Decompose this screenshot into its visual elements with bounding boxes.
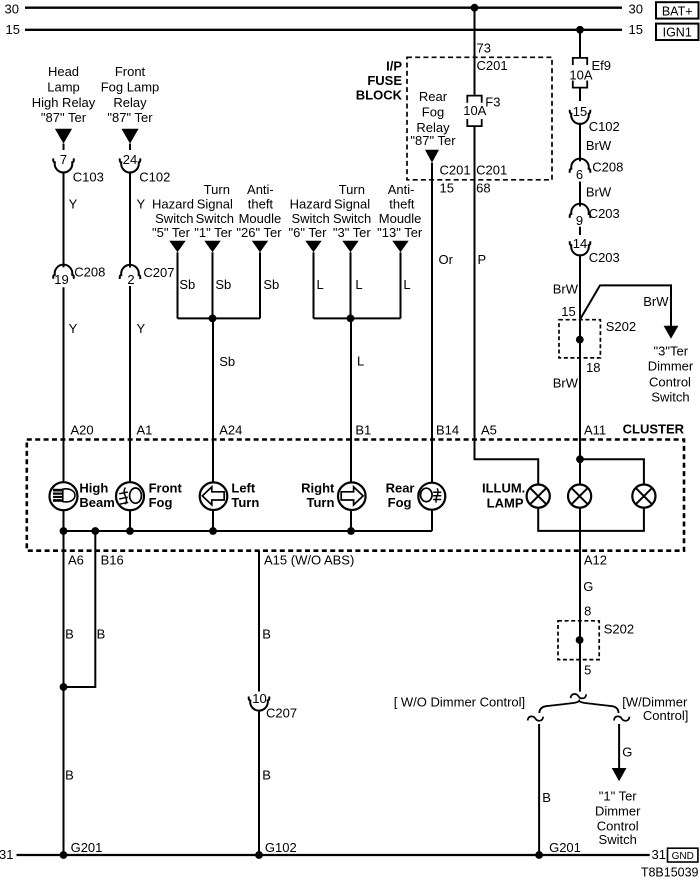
svg-text:"87" Ter: "87" Ter [41,110,87,125]
svg-text:C203: C203 [589,206,620,221]
wire Sb - anti-theft drop [259,252,261,318]
svg-text:Right: Right [301,481,335,496]
wire BrW - C102 to C208 [579,123,581,162]
svg-text:"1" Ter: "1" Ter [599,789,638,804]
svg-text:31: 31 [0,847,13,862]
indicator lamp - Rear Fog [418,483,445,510]
wire - rail 15 to fuse Ef9 [579,30,581,57]
svg-text:C201: C201 [477,58,508,73]
svg-text:"3" Ter: "3" Ter [333,225,372,240]
option split squiggle right branch [614,716,630,720]
svg-text:68: 68 [476,180,490,195]
svg-text:10A: 10A [569,68,592,83]
node - bus at front fog [126,527,134,535]
svg-text:"13" Ter: "13" Ter [377,225,423,240]
svg-text:C208: C208 [74,265,105,280]
splice S202 dashed box lower [558,621,599,660]
wire L - junction to cluster pin B1 [350,318,352,439]
wire P - fuse F3 to cluster pin A5 via C201 pin 68 [474,127,476,440]
terminal arrow - 1 Ter Dimmer Control Switch [612,768,627,781]
node - bus at left turn [209,527,217,535]
svg-text:15: 15 [6,22,20,37]
svg-text:C103: C103 [73,169,104,184]
svg-text:GND: GND [672,851,694,862]
svg-text:15: 15 [561,304,575,319]
svg-text:A20: A20 [71,423,94,438]
svg-text:Or: Or [439,252,454,267]
wire B - A15 to connector C207 [258,551,260,692]
node - junction of Ef9 feed on rail 15 [576,26,584,34]
svg-text:B16: B16 [101,553,124,568]
wire - branch to illumination lamp 3 [580,459,644,484]
svg-text:"6" Ter: "6" Ter [289,225,328,240]
svg-text:B14: B14 [436,423,459,438]
node - splice S202 lower junction [576,636,584,644]
svg-text:theft: theft [389,197,415,212]
svg-text:Turn: Turn [306,495,334,510]
svg-text:Switch: Switch [155,211,193,226]
wire - right turn to cluster bus [350,510,352,531]
svg-text:FUSE: FUSE [367,73,402,88]
svg-text:Turn: Turn [204,182,230,197]
relay terminal arrow - Rear Fog Relay [425,150,439,163]
option split squiggle left branch [528,716,544,720]
svg-text:[ W/O Dimmer Control]: [ W/O Dimmer Control] [394,694,525,709]
node - splice S202 junction [576,336,584,344]
splice S202 dashed box upper [559,320,600,358]
wire Y - C207 to cluster pin A1, colour Y [129,286,131,440]
fuse F3 10A [467,96,481,103]
wire Y - C102 to C207, colour Y [129,171,131,267]
terminal arrow - Anti-theft Moudle 26 Ter [252,241,268,253]
svg-text:P: P [478,252,487,267]
terminal arrow - Anti-theft Moudle 13 Ter [392,241,408,253]
wire - power rail 15 (IGN1) [25,29,622,31]
svg-text:BrW: BrW [586,138,612,153]
svg-text:Switch: Switch [651,390,689,405]
node - bus at high beam / pin A6 [60,527,68,535]
svg-text:High: High [79,481,108,496]
svg-text:Front: Front [149,481,183,496]
svg-text:8: 8 [584,603,591,618]
wire BrW - C203 to splice S202 [579,254,581,319]
svg-text:Fog: Fog [388,495,412,510]
svg-text:Turn: Turn [231,495,259,510]
node - bus at right turn [347,527,355,535]
svg-text:Control: Control [649,374,691,389]
svg-text:10A: 10A [463,103,486,118]
svg-text:Switch: Switch [196,211,234,226]
svg-text:"5" Ter: "5" Ter [152,225,191,240]
svg-text:"1" Ter: "1" Ter [194,225,233,240]
svg-text:Switch: Switch [599,832,637,847]
svg-text:A24: A24 [219,423,242,438]
terminal box GND [668,848,698,862]
svg-text:G201: G201 [71,840,103,855]
wire - B1 into right turn indicator [350,440,352,483]
svg-text:B: B [262,767,271,782]
svg-text:Fog: Fog [149,495,173,510]
svg-text:B: B [65,767,74,782]
svg-text:I/P: I/P [386,59,402,74]
svg-text:Sb: Sb [179,277,195,292]
svg-text:Y: Y [137,197,146,212]
wire - rail 30 to fuse F3 via C201 pin 73 [474,8,476,95]
svg-text:Dimmer: Dimmer [648,359,694,374]
node - bus at pin B16 [91,527,99,535]
svg-text:Relay: Relay [113,95,147,110]
svg-text:Hazard: Hazard [152,197,194,212]
svg-text:A15 (W/O ABS): A15 (W/O ABS) [264,553,354,568]
wire Y - C103 to C208, colour Y [63,171,65,267]
svg-text:Head: Head [48,64,79,79]
terminal arrow - Hazard Switch 6 Ter [305,241,321,253]
svg-text:BLOCK: BLOCK [356,87,403,102]
svg-text:Fog: Fog [422,104,444,119]
wire - arrow to connector C102 [129,144,131,150]
svg-text:A1: A1 [137,423,153,438]
svg-text:Anti-: Anti- [388,182,415,197]
wire - A1 into front fog indicator [129,440,131,483]
svg-text:2: 2 [127,272,134,287]
indicator lamp - Front Fog [116,482,144,510]
svg-text:B1: B1 [355,423,371,438]
wire G - with-dimmer branch to dimmer switch [618,724,620,769]
svg-text:S202: S202 [604,621,634,636]
svg-text:BrW: BrW [553,376,579,391]
illumination lamp 2 [568,485,591,508]
ground G102 [255,851,263,859]
svg-text:Turn: Turn [339,182,365,197]
terminal arrow - Hazard Switch 5 Ter [169,241,185,253]
svg-text:Signal: Signal [197,197,233,212]
svg-text:A5: A5 [481,423,497,438]
svg-text:L: L [317,277,324,292]
svg-text:15: 15 [629,22,643,37]
wire - ground rail 31 [17,854,650,856]
svg-text:14: 14 [573,236,587,251]
svg-text:B: B [262,626,271,641]
wire L - hazard switch drop [313,252,315,318]
svg-text:Beam: Beam [79,495,114,510]
ground G201 right [535,851,543,859]
svg-text:B: B [97,626,106,641]
node - L junction [347,315,355,323]
svg-text:B: B [65,626,74,641]
wire L - turn signal switch drop [350,252,352,318]
terminal arrow - Turn Signal Switch 3 Ter [342,241,358,253]
svg-text:Moudle: Moudle [239,211,282,226]
svg-text:L: L [357,354,364,369]
wire B - A6 to ground G201 [63,531,65,855]
svg-text:Moudle: Moudle [379,211,422,226]
svg-text:theft: theft [248,197,274,212]
wire B - B16 drop merging into A6 wire [64,531,96,687]
svg-text:15: 15 [573,104,587,119]
wire - illumination lamp return bus [538,508,644,531]
option split brace [539,701,618,713]
option split squiggle on main wire [571,694,587,698]
svg-text:Anti-: Anti- [247,182,274,197]
svg-text:High Relay: High Relay [32,95,96,110]
svg-text:"87" Ter: "87" Ter [107,110,153,125]
connector C207 pin 2 [120,265,141,279]
connector C208 pin 19 [53,265,74,279]
svg-text:S202: S202 [606,319,636,334]
wire - Sb join bus [178,317,261,319]
svg-text:Y: Y [137,321,146,336]
wire - arrow to connector C103 [63,144,65,150]
svg-text:Hazard: Hazard [290,197,332,212]
svg-text:Signal: Signal [334,197,370,212]
svg-text:18: 18 [586,360,600,375]
wire BrW - C208 to C203 [579,182,581,207]
terminal arrow - 3 Ter Dimmer Control Switch [664,326,679,339]
svg-text:15: 15 [440,180,454,195]
svg-text:"3"Ter: "3"Ter [654,343,689,358]
svg-text:C203: C203 [589,250,620,265]
svg-text:5: 5 [584,662,591,677]
illumination lamp 3 [632,485,655,508]
relay terminal arrow - Front Fog Lamp Relay [121,129,138,144]
svg-text:Dimmer: Dimmer [595,804,641,819]
wire - front fog to cluster bus [129,510,131,531]
svg-text:G201: G201 [549,840,581,855]
wire - A20 into high beam indicator [63,440,65,483]
wire BrW - S202 pin 18 to cluster pin A11 [579,320,581,440]
wire - rear fog to cluster bus end [431,510,433,531]
wire - A24 into left turn indicator [212,440,214,483]
svg-text:L: L [403,277,410,292]
terminal arrow - Turn Signal Switch 1 Ter [204,241,220,253]
node - junction of C201-73 feed on rail 30 [471,4,479,12]
svg-text:C102: C102 [589,119,620,134]
svg-text:Control]: Control] [643,708,689,723]
wire B - without-dimmer branch to ground G201 [538,724,540,855]
svg-text:C201: C201 [440,163,471,178]
node - Sb junction [209,315,217,323]
svg-text:A11: A11 [584,423,606,438]
svg-text:Sb: Sb [215,277,231,292]
svg-text:BAT+: BAT+ [662,4,693,18]
wire - stub between C203 halves [579,227,581,235]
wire L - anti-theft drop [400,252,402,318]
svg-text:C207: C207 [143,265,174,280]
indicator lamp - Left Turn [200,482,228,510]
svg-text:73: 73 [477,40,491,55]
terminal box BAT+ [656,2,699,18]
indicator lamp - Right Turn [338,482,366,510]
wire B - C207 to ground G102 [258,710,260,855]
svg-text:Y: Y [69,197,78,212]
svg-text:Front: Front [115,64,146,79]
node - B16 merge junction [60,683,68,691]
svg-text:ILLUM.: ILLUM. [482,481,525,496]
terminal box IGN1 [656,24,699,40]
svg-text:LAMP: LAMP [487,496,524,511]
wire P - A5 to illumination lamp 1 [475,440,539,485]
svg-text:Fog Lamp: Fog Lamp [101,79,160,94]
illumination lamp 1 [527,485,550,508]
wire Sb - hazard switch drop [177,252,179,318]
svg-text:B: B [542,790,551,805]
svg-text:IGN1: IGN1 [663,26,692,40]
svg-text:Ef9: Ef9 [592,58,612,73]
indicator lamp - High Beam [50,482,78,510]
wire Or - rear fog relay to cluster pin B14 via C201 pin 15 [431,163,433,440]
wire Sb - turn signal switch drop [212,252,214,318]
wire BrW - branch to 3 Ter dimmer control switch [580,285,671,327]
svg-text:F3: F3 [485,95,500,110]
svg-text:6: 6 [576,167,583,182]
svg-text:"26" Ter: "26" Ter [236,225,282,240]
node - illumination feed junction [576,455,584,463]
svg-text:24: 24 [123,152,137,167]
wire Y - C208 to cluster pin A20, colour Y [63,287,65,439]
svg-text:L: L [355,277,362,292]
connector C203 pin 9 [570,204,591,218]
svg-text:9: 9 [576,213,583,228]
svg-text:G102: G102 [265,840,297,855]
wire - power rail 30 (BAT+) [25,7,622,9]
wire - high beam to cluster bus [63,510,65,531]
wire - left turn to cluster bus [212,510,214,531]
svg-text:Left: Left [231,481,256,496]
svg-text:CLUSTER: CLUSTER [623,422,685,437]
svg-text:Lamp: Lamp [47,79,80,94]
wire - illumination lamp 2 to cluster pin A12 [579,508,581,551]
svg-text:10: 10 [252,691,266,706]
svg-text:G: G [583,579,593,594]
svg-text:BrW: BrW [586,185,612,200]
svg-text:C201: C201 [476,163,507,178]
cluster dashed outline [27,440,684,551]
svg-text:Y: Y [69,321,78,336]
svg-text:"87" Ter: "87" Ter [410,133,456,148]
svg-text:BrW: BrW [553,281,579,296]
wire - B14 into rear fog indicator [431,440,433,483]
svg-text:T8B15039: T8B15039 [641,866,699,880]
wire - fuse Ef9 to connector C102 pin 15 [579,89,581,102]
svg-text:Sb: Sb [263,277,279,292]
svg-text:Rear: Rear [386,481,415,496]
svg-text:A6: A6 [68,553,84,568]
relay terminal arrow - Head Lamp High Relay [55,129,72,144]
svg-text:7: 7 [60,152,67,167]
svg-text:C208: C208 [592,160,623,175]
svg-text:31: 31 [652,847,666,862]
ground G201 left [60,851,68,859]
connector C208 pin 6 [570,159,591,173]
svg-text:A12: A12 [584,553,607,568]
svg-text:C207: C207 [266,705,297,720]
wire G - A12 to splice S202 [579,551,581,621]
I/P fuse block dashed outline [407,57,552,180]
svg-text:BrW: BrW [643,294,669,309]
svg-text:G: G [622,744,632,759]
svg-text:30: 30 [629,2,643,17]
svg-text:19: 19 [54,272,68,287]
svg-text:Rear: Rear [419,89,448,104]
svg-text:C102: C102 [139,169,170,184]
wire Sb - junction to cluster pin A24 [212,318,214,439]
svg-text:30: 30 [5,2,19,17]
svg-text:Switch: Switch [333,211,371,226]
wire - cluster indicator ground bus [64,530,433,532]
wire G - S202 pin 5 to option split [579,621,581,692]
wire BrW - A11 to illumination lamp 2 [579,440,581,485]
svg-text:Switch: Switch [291,211,329,226]
wire - L join bus [314,317,401,319]
svg-text:Sb: Sb [219,354,235,369]
fuse Ef9 10A [573,58,587,65]
